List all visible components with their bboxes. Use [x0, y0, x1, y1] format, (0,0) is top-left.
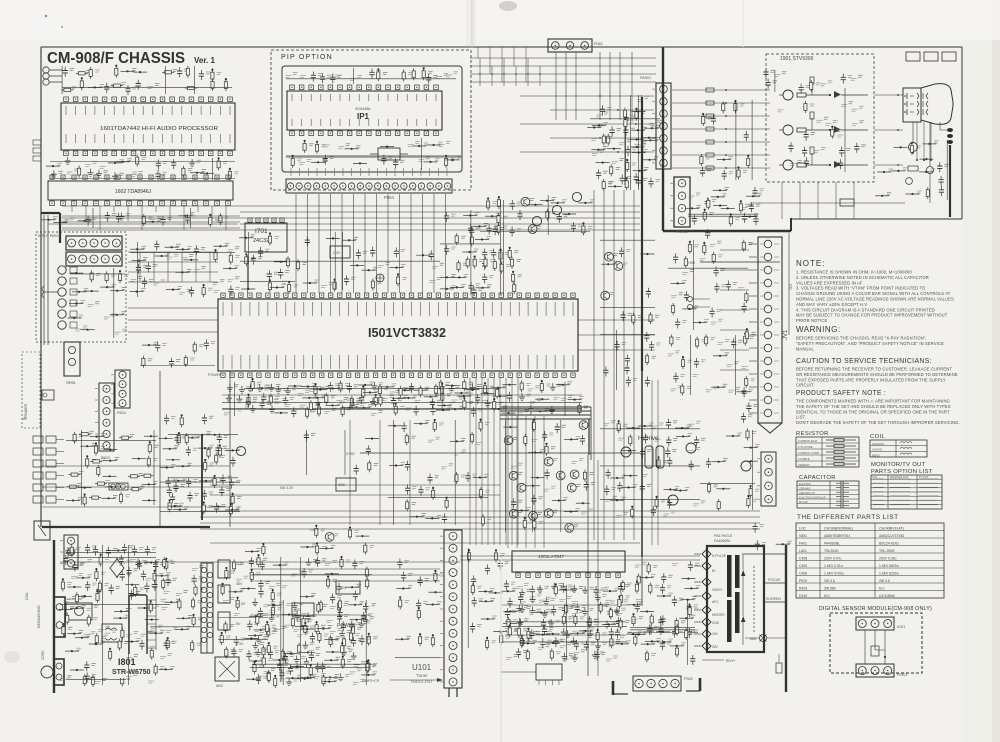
component cluster below I501: [234, 385, 239, 387]
vertical wire mid band: [379, 420, 381, 525]
component cluster left of I501 right: [517, 202, 522, 204]
wire into PA901: [550, 109, 654, 111]
I501 top pin labels: [223, 302, 573, 316]
vertical stub top area: [539, 66, 541, 86]
wire PA901 to CRT drivers: [672, 102, 770, 104]
drop wire under I602: [211, 206, 213, 221]
svg-text:VALUES ARE EXPRESSED IN uF: VALUES ARE EXPRESSED IN uF: [796, 280, 863, 285]
P904 wire stubs up: [291, 168, 447, 176]
svg-text:N.C: N.C: [879, 587, 885, 591]
wire I501 to deflection: [475, 378, 477, 545]
I301 bottom pin row: [516, 573, 520, 577]
spark gap SG901: [909, 143, 918, 152]
bridge rectifier D801: [110, 559, 124, 577]
bus wire under I602: [62, 217, 240, 219]
wire I501 to deflection: [517, 378, 519, 545]
resistor symbol: [826, 451, 856, 453]
series resistor on CRT wire: [706, 153, 714, 157]
svg-text:BSC24-01N1: BSC24-01N1: [879, 542, 899, 546]
headphone jack J601: [42, 390, 54, 400]
vertical bus wire: [633, 190, 635, 540]
wire into JV1: [720, 289, 749, 291]
svg-text:THAT EXPOSED PARTS ARE PROPERL: THAT EXPOSED PARTS ARE PROPERLY INSULATE…: [796, 377, 946, 382]
component cluster vertical amp extra: [512, 588, 517, 590]
wire I501 to deflection: [505, 378, 507, 545]
top-right section bottom border: [791, 218, 962, 220]
wire I501 to deflection: [493, 378, 495, 545]
connector PA901: [656, 83, 671, 169]
wire I501 to divider: [578, 349, 655, 351]
svg-text:H90: H90: [688, 261, 695, 265]
svg-text:SP81: SP81: [66, 380, 77, 385]
svg-text:P904: P904: [384, 195, 394, 200]
switching transformer T801: [201, 563, 213, 653]
dashed input panel box P6024: [36, 232, 126, 342]
op-amp I601 audio processor IC body: [61, 103, 235, 150]
heavy audio ground bus: [41, 213, 60, 243]
component cluster sync proc: [388, 425, 402, 427]
PIP module board outline: [282, 66, 462, 172]
vertical drop from top border: [513, 47, 515, 66]
wire I501 to vertical amp: [534, 416, 536, 548]
I602 bottom pin row: [50, 201, 55, 206]
top right corner connectors: [906, 52, 920, 61]
resistor symbols: [826, 439, 834, 441]
horizontal bus wire mid: [240, 229, 640, 231]
component cluster sound IF: [694, 245, 699, 247]
svg-text:MANUAL: MANUAL: [796, 346, 815, 351]
component cluster inside driver module: [777, 110, 783, 112]
wire PA901 to CRT drivers: [672, 167, 770, 169]
vertical link wire: [181, 252, 183, 282]
svg-text:24C32: 24C32: [253, 238, 269, 244]
svg-text:JV2: JV2: [789, 284, 793, 290]
connector P6024 row 1: [66, 236, 122, 250]
heavy video bus wire: [500, 406, 591, 408]
video processor I501 body: [218, 299, 578, 371]
wire antenna feed: [555, 52, 557, 120]
svg-text:200V 0.29u: 200V 0.29u: [879, 557, 896, 561]
wire P6024 to I501: [128, 281, 218, 283]
svg-text:8V: 8V: [236, 622, 241, 626]
wire I501 to vertical amp: [507, 416, 509, 548]
power rail wire: [210, 542, 640, 544]
svg-text:INPUT P6024: INPUT P6024: [38, 234, 60, 238]
svg-text:CIRCUIT.: CIRCUIT.: [796, 383, 814, 388]
svg-text:POWER: POWER: [337, 623, 356, 629]
horizontal bus wire mid: [240, 217, 640, 219]
svg-text:PIP OPTION: PIP OPTION: [281, 54, 333, 61]
wire H90 net: [700, 261, 780, 263]
wire antenna feed: [575, 52, 577, 120]
svg-text:IDENTICAL TO THOSE IN THE ORIG: IDENTICAL TO THOSE IN THE ORIGINAL OR SP…: [796, 409, 950, 414]
resistor at flyback bottom: [776, 663, 782, 673]
component cluster under I602 bus: [53, 217, 58, 219]
svg-text:CARBON COMP: CARBON COMP: [798, 451, 819, 455]
CRT socket and gun V901: [903, 88, 921, 122]
component cluster east-west extra: [642, 562, 647, 564]
component cluster below I602: [70, 218, 75, 220]
drop wire under I602: [225, 206, 227, 230]
filter FL401: [109, 483, 128, 490]
wire P904 to I501: [364, 194, 366, 293]
drop wire under I602: [127, 206, 129, 221]
drop from CRT module: [817, 182, 819, 219]
component cluster deflection yoke net: [638, 602, 643, 604]
line filter L801: [102, 624, 122, 642]
wire control to tuner: [250, 574, 440, 576]
component cluster IF extra: [645, 96, 650, 98]
audio IC I201: [536, 664, 562, 680]
component cluster audio out: [614, 254, 619, 256]
svg-text:PARTS OPTION LIST: PARTS OPTION LIST: [871, 469, 933, 475]
sensor connector P2401: [856, 664, 894, 677]
svg-text:SDA9488: SDA9488: [355, 107, 370, 111]
vertical drop from top border: [477, 47, 479, 58]
resistor symbol: [826, 439, 856, 441]
wire I501 to divider: [578, 334, 655, 336]
heavy CRT ground strap: [949, 145, 951, 217]
component cluster sync separators: [493, 202, 498, 204]
svg-text:R429: R429: [799, 587, 807, 591]
svg-text:N.C: N.C: [824, 594, 830, 598]
component cluster above I501: [251, 235, 256, 237]
ABL wire: [745, 637, 786, 639]
svg-text:F W-OXIDE: F W-OXIDE: [798, 445, 813, 449]
component cluster below IP1: [309, 144, 314, 146]
RCA jack column: [58, 266, 66, 274]
wire into JV1: [720, 349, 749, 351]
svg-text:I501VCT3832: I501VCT3832: [368, 325, 446, 340]
long wire mid band: [210, 484, 500, 486]
component cluster EW correction: [737, 433, 742, 435]
svg-text:COIL: COIL: [870, 434, 886, 440]
svg-text:I804: I804: [339, 586, 346, 590]
svg-text:CW-908(NORMAL): CW-908(NORMAL): [824, 527, 853, 531]
vertical link wire: [195, 252, 197, 282]
vertical stub top area: [527, 58, 529, 86]
svg-text:I801: I801: [118, 657, 136, 667]
connector FA902: [674, 177, 690, 227]
wire control to tuner: [250, 580, 440, 582]
svg-text:CERAMIC CH: CERAMIC CH: [799, 492, 815, 495]
svg-text:CHASSIS GROUND USING A COLOR B: CHASSIS GROUND USING A COLOR BAR SIGNAL …: [796, 291, 951, 296]
regulator I805: [292, 603, 314, 616]
component cluster standby: [171, 417, 176, 419]
drop wire under I602: [99, 206, 101, 230]
component cluster H-drive: [611, 421, 616, 423]
horizontal wire top feed: [470, 81, 656, 83]
wire P904 to I501: [399, 194, 401, 293]
vertical stub top area: [479, 58, 481, 86]
svg-text:C406: C406: [799, 572, 807, 576]
wire I501 to deflection: [499, 378, 501, 545]
svg-text:2W 3.6: 2W 3.6: [879, 579, 890, 583]
resistor symbol: [826, 463, 856, 465]
flyback rectifier diodes: [741, 570, 745, 576]
component cluster power secondary extra: [254, 598, 256, 602]
svg-text:WARNING:: WARNING:: [796, 325, 841, 334]
svg-text:P2401: P2401: [897, 673, 907, 677]
svg-text:JV1: JV1: [783, 329, 789, 340]
transistor trio Q501: [532, 216, 541, 225]
svg-text:FB17HOLE: FB17HOLE: [714, 534, 733, 538]
wire P904 to I501: [330, 194, 332, 293]
wire I501 to deflection: [469, 378, 471, 545]
svg-text:2W 680: 2W 680: [824, 587, 836, 591]
IP1 top pin row: [290, 85, 295, 90]
horizontal wire top feed: [470, 65, 656, 67]
wire antenna feed: [609, 52, 611, 120]
svg-text:FA01: FA01: [799, 542, 807, 546]
test point loops: [688, 297, 693, 302]
CRT socket leads: [929, 173, 931, 203]
vertical control wires: [159, 371, 161, 527]
svg-text:IO01: IO01: [897, 625, 905, 629]
svg-text:112V: 112V: [236, 562, 245, 566]
svg-text:3. VOLTAGES READ WITH “VTVM” F: 3. VOLTAGES READ WITH “VTVM” FROM POINT …: [796, 286, 925, 291]
svg-text:THE DIFFERENT PARTS LIST: THE DIFFERENT PARTS LIST: [797, 514, 899, 521]
wire driver to CRT socket: [874, 94, 903, 96]
wire PA901 to CRT drivers: [672, 115, 770, 117]
svg-text:PRIOR NOTICE: PRIOR NOTICE: [796, 318, 827, 323]
vertical link wire: [209, 252, 211, 282]
svg-text:ELECTRO: ELECTRO: [799, 483, 811, 486]
svg-text:P081: P081: [594, 42, 603, 46]
AC interlock switch S801: [34, 521, 50, 540]
svg-text:SCREEN: SCREEN: [766, 597, 781, 601]
wire audio bus: [62, 215, 240, 217]
horizontal wire top feed: [470, 73, 656, 75]
svg-text:D319: D319: [799, 594, 807, 598]
I602 top pin row: [50, 175, 54, 179]
regulator I806 3.3V: [336, 478, 356, 491]
wire PA901 to CRT drivers: [672, 89, 770, 91]
CRT socket ground lead: [923, 122, 925, 160]
diode matrix RGB drive: [451, 214, 456, 216]
long horizontal bus wire: [200, 522, 760, 524]
wire P904 to I501: [341, 194, 343, 293]
svg-text:POWER: POWER: [208, 373, 222, 377]
wire 3+30 net: [360, 452, 640, 454]
wire P904 to I501: [422, 194, 424, 293]
wire to I201: [500, 671, 536, 673]
svg-text:AFC: AFC: [712, 600, 719, 604]
wire I501 to divider: [578, 319, 655, 321]
component cluster CRT filters: [722, 101, 724, 113]
connector P6024 row 2: [66, 252, 122, 266]
component cluster power secondary: [263, 558, 268, 560]
wire into JV1: [720, 369, 749, 371]
eeprom I701 body: [245, 223, 287, 252]
key button switch column: [33, 436, 43, 443]
component cluster power primary extra: [73, 549, 78, 551]
svg-text:DON'T DEGRADE THE SAFETY OF TH: DON'T DEGRADE THE SAFETY OF THE SET THRO…: [796, 420, 960, 425]
long wire to yoke: [460, 559, 700, 561]
vertical output I301 body: [512, 551, 625, 572]
connector P603: [99, 383, 114, 451]
svg-text:V801: V801: [799, 534, 807, 538]
svg-text:CAPACITOR: CAPACITOR: [799, 475, 836, 481]
posistor TH801: [66, 603, 92, 620]
long wire to yoke: [460, 555, 700, 557]
wire P6024 to I501: [128, 271, 218, 273]
component cluster beside jacks: [69, 272, 83, 274]
series resistor on CRT wire: [706, 114, 714, 118]
I501 bottom pin labels: [223, 355, 573, 369]
component cluster above driver stages: [771, 70, 776, 72]
component cluster vertical amp: [511, 582, 516, 584]
vertical bus wire: [603, 190, 605, 540]
svg-text:SPEAKER: SPEAKER: [24, 403, 28, 420]
connector P302: [633, 676, 681, 691]
svg-text:1301LA7847: 1301LA7847: [538, 554, 565, 559]
wire driver to CRT socket: [874, 129, 903, 131]
svg-text:NORMAL LINE 220V AC VOLTAGE RE: NORMAL LINE 220V AC VOLTAGE READINGS SHO…: [796, 297, 954, 302]
bus wire under I602: [62, 229, 240, 231]
wire JV2 net: [788, 233, 790, 335]
regulator I804: [336, 581, 360, 594]
wire antenna feed: [619, 52, 621, 120]
wire into JV1: [720, 309, 749, 311]
heavy video bus wire: [500, 414, 591, 416]
I501 top pin row: [221, 293, 225, 297]
svg-text:LIST.: LIST.: [796, 415, 806, 420]
wire RD/V+: [702, 659, 724, 661]
tuner legs: [449, 688, 457, 697]
sensor connector IO01: [856, 617, 894, 630]
left edge connector tabs: [33, 140, 41, 145]
svg-text:PEAKING: PEAKING: [872, 442, 884, 446]
margin specks: [45, 15, 47, 17]
dashed PIP OPTION box: [271, 50, 471, 190]
drop wire under I602: [113, 206, 115, 212]
horizontal wire top feed: [470, 57, 656, 59]
svg-text:I701: I701: [255, 228, 268, 235]
component cluster video out extra: [696, 193, 701, 195]
component cluster left mid extra: [142, 246, 147, 248]
wire to anode beads: [940, 122, 947, 130]
control bus wires: [42, 466, 230, 507]
flyback core dashed line: [753, 566, 755, 632]
smudge bottom left: [4, 651, 20, 663]
svg-text:FUSIBLE: FUSIBLE: [798, 457, 810, 461]
horizontal bus wire mid: [240, 211, 640, 213]
vertical stub top area: [503, 58, 505, 86]
svg-text:ELECTRO NONPOLAR: ELECTRO NONPOLAR: [799, 497, 826, 500]
svg-text:CERAMIC: CERAMIC: [799, 488, 811, 491]
svg-text:2. UNLESS OTHERWISE NOTED IN S: 2. UNLESS OTHERWISE NOTED IN SCHEMATIC A…: [796, 275, 929, 280]
horizontal bus wire mid: [240, 223, 640, 225]
monitor tv out table: [871, 475, 942, 509]
vertical link wire: [153, 252, 155, 282]
heatsink diodes: [218, 560, 230, 578]
vertical stub top area: [491, 66, 493, 86]
svg-text:C405: C405: [799, 564, 807, 568]
heavy AC boundary line: [42, 526, 210, 528]
svg-text:MAY BE SUBJECT TO CHANGE FOR P: MAY BE SUBJECT TO CHANGE FOR PRODUCT IMP…: [796, 313, 948, 318]
wire I501 to deflection: [511, 378, 513, 545]
series resistor on CRT wire: [706, 166, 714, 170]
wire P904 to I501: [295, 194, 297, 293]
svg-text:COIL: COIL: [25, 592, 29, 600]
vertical drop from top border: [501, 47, 503, 82]
svg-text:P604: P604: [117, 411, 126, 415]
H-drive transformer T402: [645, 446, 653, 468]
vertical wire pair right of B+: [652, 380, 658, 545]
sensor resistor R2401: [871, 646, 879, 656]
svg-text:P302: P302: [684, 677, 693, 681]
svg-text:46V: 46V: [236, 582, 243, 586]
heavy power section boundary: [53, 540, 55, 693]
wire control to tuner: [250, 568, 440, 570]
coil symbols: [900, 442, 912, 444]
drop wire under I602: [141, 206, 143, 230]
long horizontal bus wire: [200, 510, 760, 512]
connector P904 strip: [286, 179, 452, 193]
heavy video bus wire: [500, 410, 591, 412]
heavy HV lead wire: [785, 545, 787, 692]
svg-text:“SAFETY PRECAUTION”, AND “PROD: “SAFETY PRECAUTION”, AND “PRODUCT SAFETY…: [796, 341, 944, 346]
series resistor on CRT wire: [706, 88, 714, 92]
svg-text:A68QCU73TX81: A68QCU73TX81: [879, 534, 905, 538]
wire PA901 to CRT drivers: [672, 141, 770, 143]
svg-text:P919: P919: [799, 579, 807, 583]
heavy vertical bus B+: [641, 97, 643, 371]
component cluster JV1 feed: [745, 291, 747, 303]
bus bend down: [588, 419, 590, 455]
frame right border: [961, 47, 963, 219]
resistor symbol: [826, 445, 856, 447]
svg-text:CHOKE: CHOKE: [872, 448, 882, 452]
svg-text:ABL: ABL: [750, 637, 757, 641]
svg-text:CM-908/F CHASSIS: CM-908/F CHASSIS: [47, 50, 185, 67]
svg-text:H-PULSE: H-PULSE: [712, 554, 726, 558]
wire I501 left to input panel: [128, 307, 218, 309]
svg-text:NOTE:: NOTE:: [796, 259, 825, 268]
drop wire under I602: [183, 206, 185, 230]
svg-text:1901 STV9306: 1901 STV9306: [780, 56, 814, 62]
wire P904 to I501: [433, 194, 435, 293]
monitor table cell marks: [873, 479, 938, 509]
dashed digital sensor module box: [830, 613, 922, 673]
svg-text:UZ-5.6BW: UZ-5.6BW: [879, 594, 896, 598]
connector P604: [115, 370, 130, 408]
wire into PA901: [520, 151, 654, 153]
P302 bracket left: [612, 681, 615, 695]
svg-text:2W 3.6: 2W 3.6: [824, 579, 835, 583]
wire I501 left to input panel: [128, 331, 218, 333]
svg-text:I702: I702: [333, 251, 340, 255]
crystal node X501: [376, 274, 384, 282]
long horizontal bus wire: [200, 528, 760, 530]
connector P901 focus/screen: [761, 452, 776, 506]
fold crease top: [471, 0, 474, 47]
svg-text:MONITOR/TV OUT: MONITOR/TV OUT: [871, 462, 925, 468]
long horizontal bus wire: [200, 516, 760, 518]
vertical drop from top border: [489, 47, 491, 74]
pip sub-regulator: [378, 148, 400, 160]
wire I501 to vertical amp: [525, 416, 527, 548]
speaker option dashed box: [22, 352, 40, 428]
driver output bus wire: [844, 88, 846, 172]
wire P904 to I501: [376, 194, 378, 293]
svg-text:FA902: FA902: [676, 229, 688, 234]
component cluster IF input: [404, 561, 409, 563]
wire AGC arrow: [390, 679, 440, 681]
svg-text:CARBON FILM: CARBON FILM: [798, 439, 818, 443]
wire I501 to vertical amp: [516, 416, 518, 548]
